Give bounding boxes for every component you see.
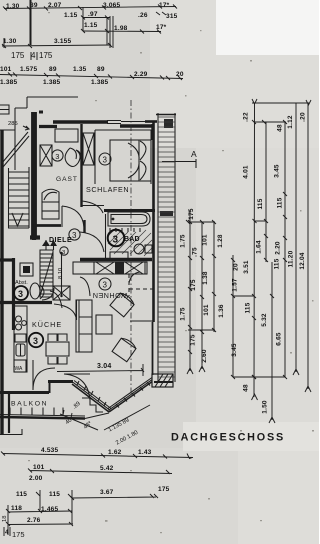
svg-text:1.385: 1.385	[0, 79, 17, 86]
svg-text:SCHLAFEN: SCHLAFEN	[86, 185, 129, 194]
svg-text:1.30: 1.30	[3, 38, 17, 45]
svg-text:3: 3	[62, 250, 65, 256]
svg-text:3: 3	[113, 235, 119, 246]
svg-text:115: 115	[277, 197, 284, 208]
armchair 2 rotated	[112, 336, 137, 361]
door arc DIELE to WOHNEN	[50, 291, 62, 308]
svg-text:20: 20	[233, 263, 240, 271]
small circled 3 above stair	[60, 247, 68, 256]
svg-text:.20: .20	[300, 112, 307, 122]
room outline schlafen	[95, 130, 151, 184]
svg-text:285: 285	[8, 121, 18, 127]
circled 3 GAST	[52, 150, 63, 161]
chain x233	[231, 255, 235, 377]
section marker A	[162, 149, 197, 168]
svg-text:4.01: 4.01	[243, 165, 250, 179]
internal stair (unit stair)	[40, 240, 64, 300]
sink BAD	[110, 252, 128, 260]
GAST bottom wall	[33, 224, 61, 227]
south wall WOHNEN	[48, 380, 73, 383]
chain x272	[269, 262, 275, 423]
neighbor unit outline top-left	[0, 97, 78, 170]
svg-text:GAST: GAST	[56, 176, 78, 183]
svg-text:KÜCHE: KÜCHE	[32, 320, 62, 329]
svg-text:3.45: 3.45	[274, 164, 281, 178]
svg-text:1.12: 1.12	[287, 115, 294, 129]
svg-text:.97: .97	[88, 11, 98, 18]
svg-text:18: 18	[2, 516, 8, 522]
group A chain x202	[199, 222, 205, 372]
door arc WOHNEN entry	[80, 277, 90, 296]
svg-text:3: 3	[72, 231, 77, 240]
chain x296	[293, 103, 299, 375]
sofa	[76, 300, 112, 352]
bathtub	[108, 212, 150, 226]
svg-text:1.15: 1.15	[84, 22, 98, 29]
step zigzag inside bay corner	[82, 398, 103, 412]
balustrade posts	[10, 408, 63, 416]
svg-text:3: 3	[103, 281, 108, 290]
svg-text:17*: 17*	[159, 2, 170, 9]
connector y122	[252, 120, 287, 124]
balcony top wall	[0, 391, 49, 394]
toilet	[134, 244, 152, 254]
short chain under .97	[83, 7, 110, 45]
group A chain x214	[212, 222, 216, 332]
svg-text:118: 118	[11, 505, 22, 512]
svg-text:1.75: 1.75	[180, 307, 187, 321]
svg-text:175: 175	[39, 51, 53, 60]
svg-text:5.42: 5.42	[100, 465, 114, 472]
svg-text:4: 4	[31, 51, 36, 60]
svg-text:20: 20	[176, 71, 184, 78]
svg-text:115: 115	[274, 258, 281, 269]
partition DIELE/BAD	[105, 214, 107, 260]
svg-text:115: 115	[245, 302, 252, 313]
svg-text:1.28: 1.28	[217, 234, 224, 248]
diagonal dims at balcony	[60, 401, 98, 431]
wall left mid (kitchen side)	[12, 258, 15, 330]
section dash-dot line A	[130, 100, 132, 398]
dining table set	[46, 334, 69, 364]
connector y221	[254, 220, 266, 222]
stair entry arrows	[42, 240, 57, 246]
svg-text:DACHGESCHOSS: DACHGESCHOSS	[171, 432, 285, 444]
balcony edge connector to bay vertex	[85, 413, 109, 419]
top wall step low	[39, 125, 57, 128]
circled 3 BAD bold	[108, 230, 125, 247]
door arc WOHNEN top right	[129, 272, 140, 283]
svg-text:1.35: 1.35	[73, 66, 87, 73]
partition GAST/SCHLAFEN	[80, 124, 82, 207]
svg-text:.26: .26	[138, 12, 148, 19]
svg-text:175: 175	[158, 486, 170, 493]
svg-text:3: 3	[55, 152, 59, 161]
connector y296	[231, 294, 254, 298]
wall above right pier	[154, 381, 173, 383]
svg-text:1.38: 1.38	[202, 271, 209, 285]
wall SCHLAFEN/BAD horizontal	[104, 209, 155, 212]
svg-text:BAD: BAD	[124, 236, 140, 243]
svg-text:11.20: 11.20	[288, 250, 295, 267]
svg-text:175: 175	[12, 530, 25, 539]
svg-text:2.76: 2.76	[27, 517, 41, 524]
stair diagonal break line	[2, 132, 29, 167]
svg-text:1.465: 1.465	[41, 506, 58, 513]
SE corner step of WOHNEN	[130, 320, 153, 322]
top wall main	[53, 120, 108, 123]
svg-text:1.385: 1.385	[91, 79, 108, 86]
svg-text:4.535: 4.535	[41, 447, 58, 454]
svg-text:101: 101	[202, 234, 209, 246]
svg-text:1.50: 1.50	[262, 400, 269, 414]
svg-text:101: 101	[203, 304, 210, 316]
circled 3 DIELE	[69, 229, 80, 240]
svg-text:12.04: 12.04	[299, 252, 306, 269]
svg-text:115: 115	[49, 491, 60, 498]
svg-text:1.15: 1.15	[64, 12, 78, 19]
chain line row3	[2, 16, 113, 48]
diagonal dims at bay	[104, 405, 150, 447]
svg-text:48: 48	[277, 124, 284, 132]
main chain line	[0, 75, 183, 79]
svg-text:1.43: 1.43	[138, 449, 152, 456]
wall kitchen top	[0, 301, 52, 304]
svg-text:3: 3	[103, 156, 108, 165]
svg-text:BALKON: BALKON	[11, 401, 48, 408]
GAST door leaf and arc	[62, 206, 84, 227]
bay diagonal wall right	[108, 378, 153, 413]
svg-text:48: 48	[243, 384, 250, 392]
svg-text:.22: .22	[243, 112, 250, 122]
droplet shape in GAST (sink)	[65, 148, 80, 167]
dashed knee wall	[129, 274, 154, 296]
chain x308	[305, 103, 311, 392]
door arc WOHNEN/balcony left	[64, 374, 90, 400]
tiles tick under tub	[110, 228, 140, 232]
SCHLAFEN door arc	[82, 201, 103, 213]
svg-text:115: 115	[257, 198, 264, 209]
svg-text:3.45: 3.45	[231, 343, 238, 357]
svg-text:3.155: 3.155	[54, 38, 71, 45]
circled 3 SCHLAFEN	[99, 153, 111, 165]
bay diagonal wall left	[72, 381, 111, 413]
right wall of unit	[152, 122, 155, 322]
svg-text:1.57: 1.57	[232, 278, 239, 292]
svg-text:1.575: 1.575	[20, 66, 37, 73]
svg-text:3: 3	[18, 289, 23, 299]
svg-text:175: 175	[11, 51, 25, 60]
svg-text:3: 3	[33, 336, 38, 346]
top wall right	[120, 124, 154, 128]
svg-text:2.60: 2.60	[201, 349, 208, 363]
svg-text:3.51: 3.51	[243, 260, 250, 274]
svg-text:101: 101	[0, 66, 12, 73]
door post	[83, 220, 85, 233]
svg-text:3.065: 3.065	[103, 2, 120, 9]
svg-text:4: 4	[5, 529, 9, 536]
svg-text:1.30: 1.30	[6, 3, 20, 10]
connector y377	[231, 375, 287, 379]
balcony bottom edge	[0, 417, 85, 419]
svg-text:89: 89	[49, 66, 57, 73]
thick vertical line left top	[30, 0, 32, 45]
cupboard X above kitchen wall	[53, 286, 70, 300]
chain x285	[283, 122, 287, 377]
svg-text:175: 175	[188, 208, 195, 220]
chimney block	[20, 263, 33, 276]
wall below BAD horizontal	[80, 258, 152, 261]
svg-text:Abst.: Abst.	[15, 280, 28, 286]
svg-text:1.62: 1.62	[108, 449, 122, 456]
left wall bottom end	[0, 429, 22, 435]
circled 3 Abst bold	[14, 286, 28, 300]
svg-text:WA: WA	[15, 366, 24, 372]
stair arrow V	[12, 213, 23, 226]
cabinet row with X (corridor)	[73, 262, 147, 274]
svg-text:2.20: 2.20	[275, 241, 282, 255]
svg-text:3.67: 3.67	[100, 489, 114, 496]
GAST top closet	[55, 129, 78, 142]
bed	[110, 140, 151, 181]
BAD door arc	[80, 232, 104, 252]
group A chain x190	[187, 210, 193, 374]
neighbor window box	[0, 105, 9, 114]
left outer wall	[0, 130, 3, 434]
window X left of GAST circle	[40, 145, 52, 166]
armchair 1 rotated	[110, 291, 136, 317]
window X on partition	[83, 133, 94, 165]
right ladder band (neighbor stair)	[145, 113, 176, 382]
GAST top-left wall step piece	[39, 111, 43, 114]
chain x266	[264, 122, 268, 262]
chain line second	[83, 30, 161, 33]
svg-text:3.04: 3.04	[97, 363, 111, 370]
svg-text:1.64: 1.64	[256, 240, 263, 254]
svg-text:A: A	[191, 149, 197, 159]
bay pier right hatched	[152, 374, 173, 387]
partition stair/GAST x34	[30, 112, 40, 240]
GAST corner cabinet	[42, 189, 59, 219]
inner dim 3.04	[57, 363, 144, 376]
top window gap	[107, 121, 121, 124]
circled 3 WOHNEN	[99, 278, 111, 290]
svg-text:89: 89	[97, 66, 105, 73]
circled 3 KUECHE bold	[29, 333, 43, 347]
Abst door ellipse	[30, 283, 40, 299]
chain x254	[252, 103, 258, 400]
kitchen door arc	[33, 360, 55, 390]
8.10 leader line	[61, 253, 63, 296]
svg-text:DIELE: DIELE	[49, 237, 72, 244]
svg-text:8.10: 8.10	[58, 268, 64, 279]
svg-text:2.29: 2.29	[134, 71, 148, 78]
svg-text:175: 175	[190, 279, 197, 291]
white patch top right	[150, 0, 319, 148]
door arc at stair foot	[42, 288, 54, 300]
group A connectors	[186, 220, 216, 330]
BAD floor hatch	[108, 228, 152, 256]
svg-text:315: 315	[166, 13, 178, 20]
svg-text:6.65: 6.65	[276, 332, 283, 346]
svg-text:101: 101	[33, 464, 45, 471]
svg-text:5.32: 5.32	[261, 313, 268, 327]
svg-text:.75: .75	[192, 247, 199, 257]
svg-text:175: 175	[190, 334, 197, 346]
kitchen counter	[14, 306, 27, 372]
svg-text:115: 115	[16, 491, 27, 498]
svg-text:2.00: 2.00	[29, 475, 43, 482]
dim chain line top	[4, 7, 176, 9]
connector top y103	[252, 99, 311, 105]
stairwell (left common stair)	[8, 167, 29, 228]
wall step at x49	[49, 381, 51, 393]
kitchen door arc	[54, 300, 77, 320]
svg-text:1.385: 1.385	[43, 79, 60, 86]
left wall inner leaf at balcony	[8, 393, 10, 433]
svg-text:1.36: 1.36	[218, 304, 225, 318]
